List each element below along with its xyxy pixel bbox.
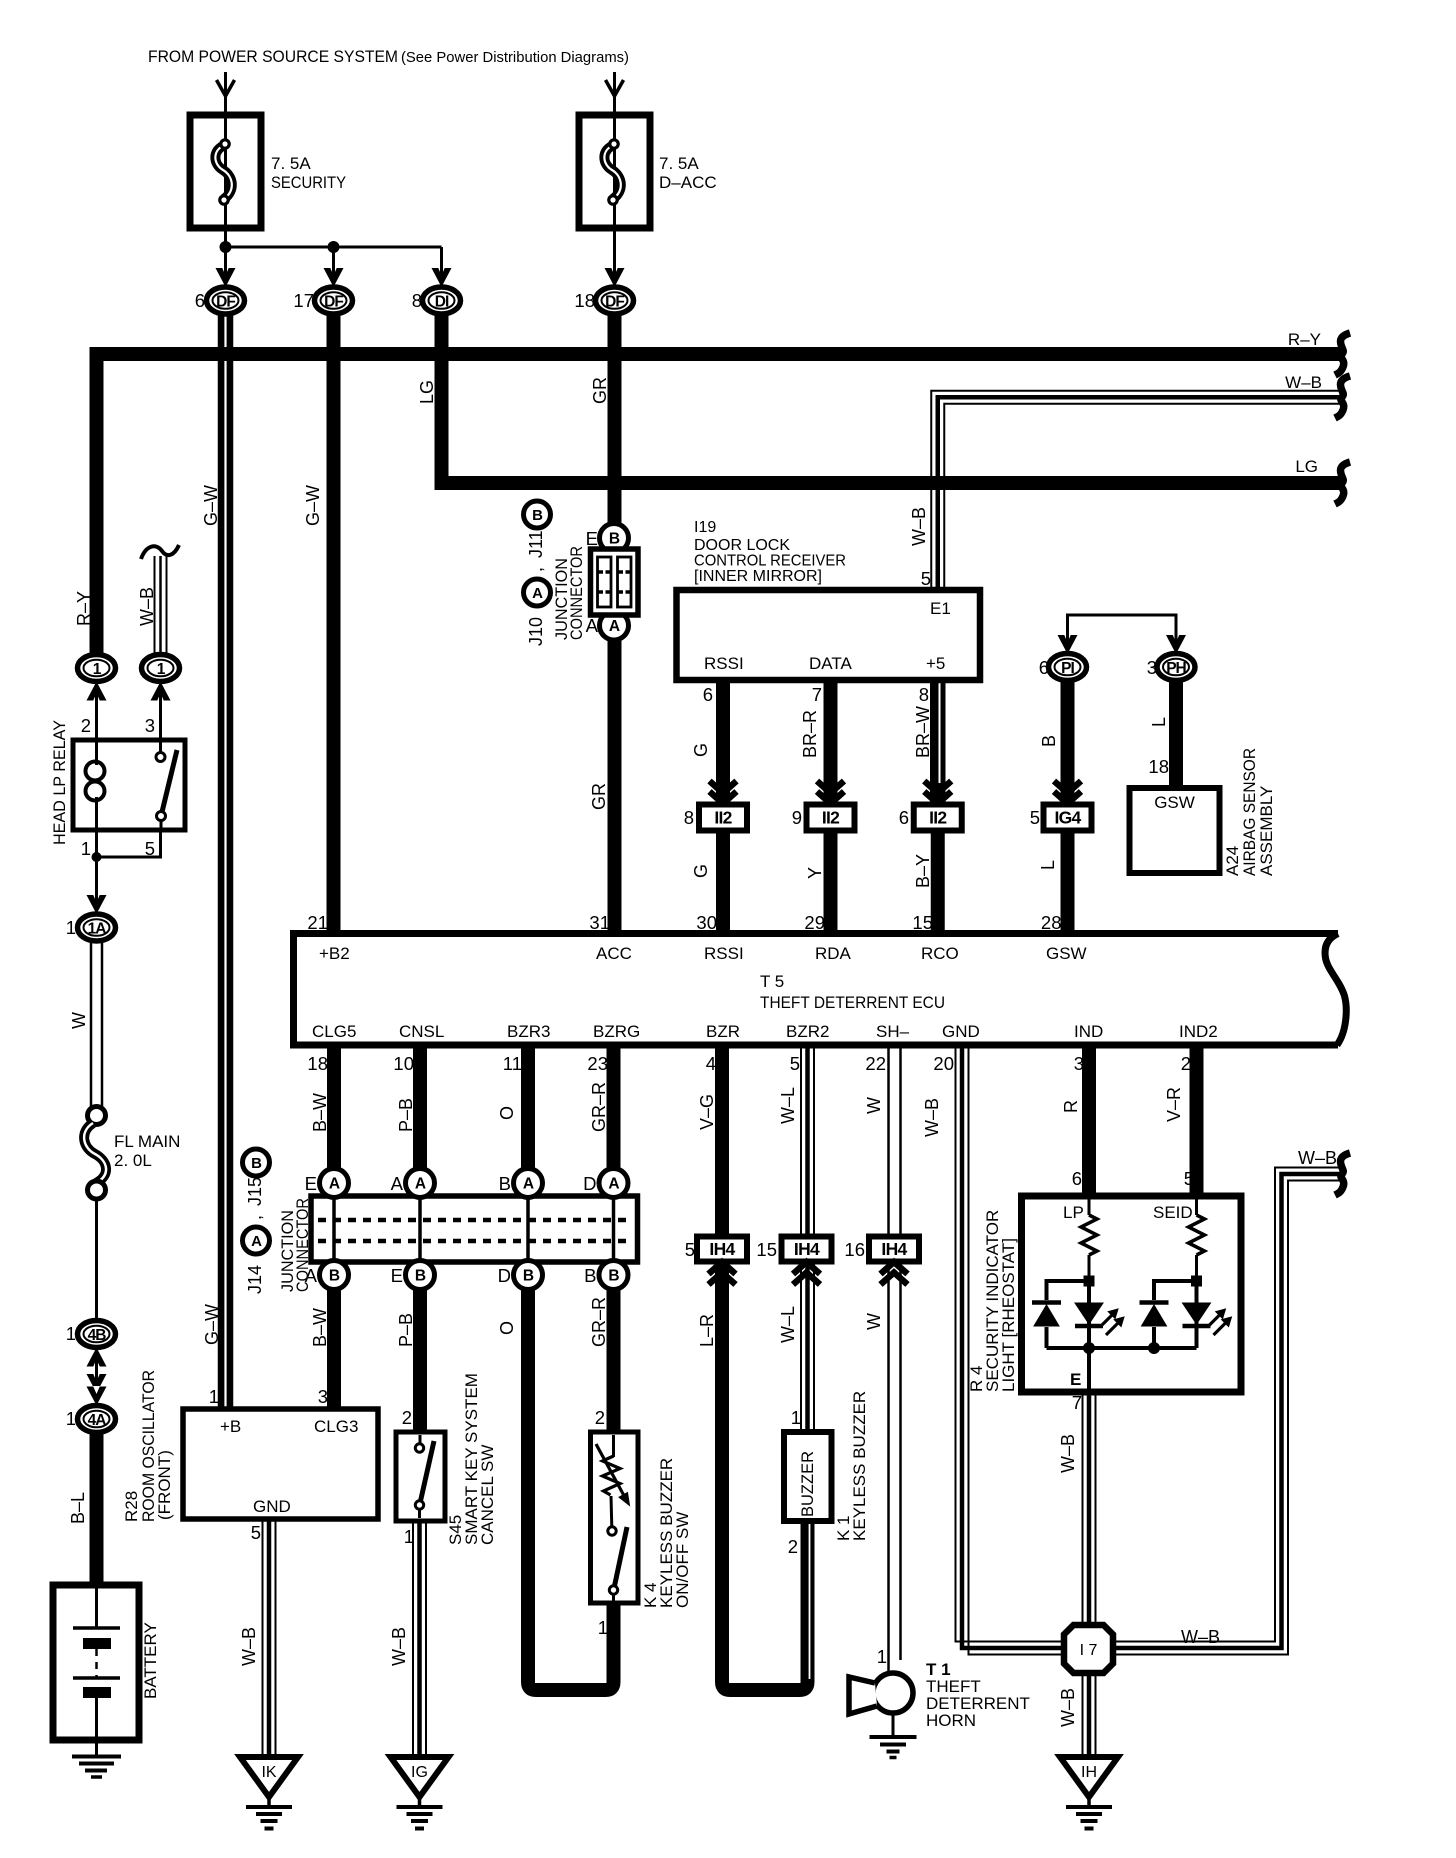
- wire Y from II2 to ECU RDA: [824, 831, 838, 933]
- svg-text:,: ,: [245, 1215, 265, 1220]
- fusible link FL MAIN 2.0L: [88, 1107, 106, 1125]
- svg-text:5: 5: [145, 838, 155, 859]
- svg-text:D: D: [583, 1173, 596, 1194]
- svg-text:E: E: [586, 528, 598, 549]
- svg-text:2: 2: [81, 715, 91, 736]
- connector oval 6 DF: [207, 287, 245, 314]
- wire W-B from S45 pin1 to IG ground (triple): [412, 1521, 414, 1754]
- svg-text:16: 16: [844, 1239, 865, 1260]
- wire B-Y from II2 to ECU RCO: [931, 831, 945, 933]
- wire bracket feeding PI and PH: [1068, 615, 1177, 643]
- svg-text:20: 20: [933, 1053, 954, 1074]
- svg-text:BZR: BZR: [706, 1022, 740, 1041]
- wire B-W from ECU CLG5 through junction to oscillator CLG3: [327, 1045, 341, 1409]
- wire W-B with open end hook at relay: [154, 556, 156, 656]
- svg-text:4B: 4B: [88, 1327, 107, 1344]
- svg-text:G–W: G–W: [303, 485, 323, 526]
- svg-text:21: 21: [307, 912, 328, 933]
- LED pair wiring (LP): [1047, 1281, 1090, 1300]
- svg-text:7. 5A: 7. 5A: [659, 154, 699, 173]
- keyless buzzer on/off switch K4 box: [591, 1432, 639, 1603]
- svg-text:1: 1: [598, 1617, 608, 1638]
- room oscillator R28 box: [183, 1409, 378, 1519]
- svg-text:B: B: [532, 507, 543, 524]
- arrow into II2 pin6: [924, 781, 951, 804]
- svg-text:29: 29: [804, 912, 825, 933]
- svg-text:HEAD LP RELAY: HEAD LP RELAY: [50, 720, 69, 845]
- wire G-W from 6DF down to room oscillator +B (hollow): [218, 313, 234, 1409]
- brace W-B right lower: [1335, 1153, 1350, 1195]
- svg-text:B: B: [608, 1268, 619, 1285]
- svg-text:CLG3: CLG3: [314, 1417, 358, 1436]
- svg-text:7. 5A: 7. 5A: [271, 154, 311, 173]
- svg-text:7: 7: [812, 684, 822, 705]
- junction node at 17DF branch: [328, 241, 340, 253]
- svg-text:GR–R: GR–R: [589, 1297, 609, 1347]
- wire W shielded pair from ECU SH- to IH4: [887, 1045, 890, 1237]
- connector oval 8 DI: [423, 287, 461, 314]
- svg-text:GND: GND: [942, 1022, 980, 1041]
- svg-text:G: G: [691, 864, 711, 878]
- svg-text:A: A: [329, 1176, 340, 1193]
- svg-text:BZR2: BZR2: [786, 1022, 829, 1041]
- svg-text:SECURITY: SECURITY: [271, 173, 346, 192]
- svg-text:1: 1: [209, 1386, 219, 1407]
- svg-text:1: 1: [877, 1646, 887, 1667]
- svg-text:2: 2: [1181, 1053, 1191, 1074]
- wire W-B from oscillator GND to IK ground (triple): [262, 1519, 264, 1754]
- svg-text:I 7: I 7: [1080, 1642, 1098, 1659]
- svg-text:+5: +5: [926, 654, 945, 673]
- SEID resistor: [1195, 1199, 1198, 1215]
- horn ground: [892, 1713, 895, 1736]
- wire L from IG4 to ECU GSW: [1061, 831, 1075, 933]
- junction connector J14/J15 box: [311, 1196, 638, 1262]
- wire W-L from ECU BZR2 to IH4 (triple): [800, 1045, 802, 1237]
- svg-text:IND2: IND2: [1179, 1022, 1218, 1041]
- svg-text:2: 2: [402, 1407, 412, 1428]
- wire B from PI to IG4: [1061, 680, 1075, 804]
- svg-text:SH–: SH–: [876, 1022, 910, 1041]
- svg-text:BR–W: BR–W: [913, 706, 933, 758]
- svg-text:B: B: [329, 1268, 340, 1285]
- wire relay pin3 internal lead: [159, 692, 162, 740]
- connector oval 1A: [78, 914, 116, 941]
- relay switch: [159, 740, 162, 752]
- wire W-B from I7 down to IH ground (triple): [1082, 1673, 1084, 1754]
- arrow into connector 6DF: [216, 268, 236, 287]
- svg-text:A: A: [305, 1265, 318, 1286]
- wire R from ECU IND to security light pin6: [1082, 1045, 1096, 1196]
- svg-text:11: 11: [503, 1053, 522, 1074]
- theft deterrent ECU T5 box: [294, 934, 1339, 1046]
- svg-text:LG: LG: [417, 380, 437, 404]
- svg-text:I19: I19: [694, 519, 716, 536]
- LP resistor: [1088, 1199, 1091, 1215]
- svg-text:R: R: [1061, 1100, 1081, 1113]
- connector box 5 IG4: [1044, 805, 1092, 831]
- svg-text:1A: 1A: [88, 921, 107, 938]
- wire relay pin1 down to junction: [95, 830, 98, 904]
- wire fuse output branch to connectors 6DF/17DF/8DI: [226, 246, 442, 249]
- battery ground: [72, 1755, 121, 1759]
- arrow into II2 pin8: [710, 781, 737, 804]
- diode LP left: [1032, 1300, 1061, 1305]
- wire GR-R from ECU BZRG through junction to K4 pin2: [607, 1045, 621, 1432]
- svg-text:18: 18: [1148, 756, 1169, 777]
- wire V-G / L-R from ECU BZR through IH4, loop to buzzer pin2: [715, 1045, 729, 1237]
- wire relay pin5 down and left to junction: [97, 830, 161, 857]
- svg-text:4A: 4A: [88, 1412, 107, 1429]
- svg-text:GND: GND: [253, 1497, 291, 1516]
- wire R-Y bus from head lamp relay column to right edge: [97, 354, 1343, 656]
- svg-text:CLG5: CLG5: [312, 1022, 356, 1041]
- svg-text:W: W: [864, 1097, 884, 1114]
- svg-text:,: ,: [526, 567, 546, 572]
- wire B-L from 4A to battery: [90, 1432, 104, 1585]
- svg-text:L–R: L–R: [697, 1314, 717, 1347]
- svg-text:SEID: SEID: [1153, 1203, 1193, 1222]
- svg-text:6: 6: [195, 290, 205, 311]
- theft deterrent horn T1: [873, 1673, 913, 1713]
- svg-text:B–W: B–W: [310, 1093, 330, 1132]
- svg-text:LG: LG: [1295, 457, 1318, 476]
- svg-text:5: 5: [790, 1053, 800, 1074]
- svg-text:W–B: W–B: [239, 1627, 259, 1666]
- svg-text:1: 1: [66, 1323, 76, 1344]
- svg-text:5: 5: [921, 568, 931, 589]
- svg-text:BUZZER: BUZZER: [799, 1451, 817, 1517]
- svg-text:5: 5: [1030, 807, 1040, 828]
- svg-text:IG: IG: [411, 1764, 428, 1781]
- svg-text:T 5: T 5: [760, 972, 784, 991]
- svg-text:E1: E1: [930, 599, 951, 618]
- svg-text:3: 3: [318, 1386, 328, 1407]
- airbag sensor assembly A24 box: [1130, 788, 1220, 873]
- K4 rheostat symbol: [612, 1435, 615, 1457]
- svg-text:15: 15: [912, 912, 933, 933]
- svg-text:THEFT DETERRENT ECU: THEFT DETERRENT ECU: [760, 993, 945, 1012]
- svg-text:18: 18: [307, 1053, 328, 1074]
- svg-text:CONTROL RECEIVER: CONTROL RECEIVER: [694, 553, 846, 570]
- wire BR-R from I19 DATA to II2: [824, 680, 838, 804]
- wire from FL MAIN to 4B: [95, 1199, 98, 1320]
- junction connector internal dividers: [332, 1199, 336, 1259]
- svg-text:DATA: DATA: [809, 654, 852, 673]
- wire W-L from IH4 to buzzer pin1 (triple): [800, 1262, 802, 1432]
- white stripe on buzzer pin2 hollow wire: [809, 1523, 811, 1679]
- junction connector J10/J11 ovals and box: [600, 524, 629, 553]
- wire P-B from ECU CNSL through junction to S45: [413, 1045, 427, 1432]
- wire W from 1A to fusible link FL MAIN (hollow): [90, 941, 93, 1108]
- wire BR-W from I19 +5 to II2 (hollow): [930, 680, 946, 804]
- ground triangle IG: [391, 1757, 449, 1797]
- svg-text:E: E: [305, 1173, 317, 1194]
- svg-text:PH: PH: [1166, 660, 1186, 677]
- svg-text:P–B: P–B: [396, 1313, 416, 1347]
- svg-text:6: 6: [703, 684, 713, 705]
- svg-text:5: 5: [685, 1239, 695, 1260]
- svg-text:DF: DF: [605, 294, 624, 311]
- svg-text:O: O: [497, 1321, 517, 1335]
- svg-text:CONNECTOR: CONNECTOR: [567, 546, 586, 640]
- wire W-B from I7 right and up to right edge (triple): [1113, 1168, 1342, 1642]
- battery symbol: [95, 1585, 98, 1628]
- svg-text:GR: GR: [589, 783, 609, 810]
- ground triangle IH: [1060, 1757, 1118, 1797]
- svg-text:10: 10: [393, 1053, 414, 1074]
- svg-text:W–B: W–B: [909, 507, 929, 546]
- svg-text:7: 7: [1072, 1392, 1082, 1413]
- svg-text:W–B: W–B: [1058, 1434, 1078, 1473]
- arrow up into relay connector 1 (W-B): [151, 682, 171, 701]
- LED SEID right with emission arrows: [1183, 1303, 1211, 1324]
- svg-text:A: A: [415, 1176, 426, 1193]
- svg-text:CANCEL SW: CANCEL SW: [478, 1445, 497, 1545]
- svg-text:W–B: W–B: [389, 1627, 409, 1666]
- LED LP right with emission arrows: [1075, 1303, 1103, 1324]
- svg-text:FROM POWER SOURCE SYSTEM: FROM POWER SOURCE SYSTEM: [148, 48, 398, 66]
- svg-text:BZRG: BZRG: [593, 1022, 640, 1041]
- svg-text:O: O: [497, 1106, 517, 1120]
- wire W-B from ECU GND down and right to I7 (triple): [956, 1045, 1065, 1642]
- connector oval 4A: [78, 1406, 116, 1433]
- svg-text:G–W: G–W: [201, 485, 221, 526]
- svg-text:R–Y: R–Y: [74, 591, 94, 626]
- connector box 16 IH4: [869, 1237, 919, 1262]
- brace R-Y right: [1335, 333, 1350, 375]
- wire LG from 8DI to right edge: [442, 313, 1343, 483]
- svg-text:9: 9: [792, 807, 802, 828]
- svg-text:(See Power Distribution Diagra: (See Power Distribution Diagrams): [401, 49, 629, 66]
- wire G from I19 RSSI to II2: [716, 680, 730, 804]
- svg-text:B–W: B–W: [310, 1308, 330, 1347]
- svg-text:B: B: [499, 1173, 511, 1194]
- svg-text:W–L: W–L: [778, 1087, 798, 1124]
- arrow into PH: [1166, 635, 1186, 654]
- arrow into connector 17DF: [324, 268, 344, 287]
- svg-text:[INNER MIRROR]: [INNER MIRROR]: [694, 568, 822, 585]
- LED pair wiring (SEID): [1154, 1281, 1197, 1300]
- svg-text:28: 28: [1041, 912, 1062, 933]
- svg-text:W–B: W–B: [1181, 1627, 1220, 1647]
- connector oval 1 (R-Y): [78, 655, 116, 682]
- relay coil: [95, 740, 98, 765]
- svg-text:IH4: IH4: [881, 1239, 907, 1259]
- svg-text:A: A: [608, 1176, 619, 1193]
- K4 switch symbol: [608, 1527, 616, 1535]
- svg-text:BR–R: BR–R: [800, 710, 820, 758]
- node LP: [1084, 1276, 1095, 1287]
- connector oval 1 (W-B): [142, 655, 180, 682]
- svg-text:17: 17: [293, 290, 314, 311]
- svg-text:E: E: [391, 1265, 403, 1286]
- svg-text:15: 15: [756, 1239, 777, 1260]
- arrow into PI: [1058, 635, 1078, 654]
- svg-text:J15: J15: [245, 1177, 265, 1206]
- wire from power source into fuse D-ACC: [613, 72, 616, 277]
- wire L from PH to airbag sensor GSW pin18: [1169, 680, 1183, 788]
- svg-text:6: 6: [1039, 657, 1049, 678]
- svg-text:L: L: [1149, 717, 1169, 727]
- ground triangle IK: [240, 1757, 298, 1797]
- svg-text:ACC: ACC: [596, 944, 632, 963]
- svg-text:L: L: [1038, 860, 1058, 870]
- svg-text:IND: IND: [1074, 1022, 1103, 1041]
- battery box: [53, 1585, 139, 1740]
- wire from power source into fuse SECURITY: [224, 72, 227, 277]
- svg-text:2. 0L: 2. 0L: [114, 1151, 152, 1170]
- svg-text:LIGHT [RHEOSTAT]: LIGHT [RHEOSTAT]: [999, 1238, 1018, 1392]
- svg-text:W–L: W–L: [778, 1306, 798, 1343]
- svg-text:1: 1: [791, 1407, 801, 1428]
- arrow up into 16 IH4: [881, 1262, 908, 1285]
- svg-text:V–G: V–G: [697, 1094, 717, 1130]
- node E junction: [1083, 1342, 1095, 1354]
- svg-text:ON/OFF SW: ON/OFF SW: [673, 1512, 692, 1608]
- connector I7 octagon: [1064, 1625, 1113, 1673]
- node SEID: [1191, 1276, 1202, 1287]
- connector box 5 IH4: [697, 1237, 747, 1262]
- svg-text:G: G: [691, 743, 711, 757]
- svg-text:CNSL: CNSL: [399, 1022, 444, 1041]
- svg-text:ASSEMBLY: ASSEMBLY: [1257, 786, 1276, 876]
- connector oval 6 PI: [1049, 654, 1087, 681]
- arrow into connector 8DI: [432, 268, 452, 287]
- svg-text:DI: DI: [435, 294, 449, 311]
- svg-text:A: A: [523, 1176, 534, 1193]
- wire E to pin7: [1087, 1348, 1091, 1392]
- connector oval 17 DF: [315, 287, 353, 314]
- svg-text:GR–R: GR–R: [589, 1082, 609, 1132]
- svg-text:RCO: RCO: [921, 944, 959, 963]
- wire V-R from ECU IND2 to security light pin5: [1190, 1045, 1204, 1196]
- svg-text:1: 1: [66, 917, 76, 938]
- door lock control receiver I19 box: [677, 590, 981, 680]
- svg-text:W–B: W–B: [137, 587, 157, 626]
- svg-text:IH4: IH4: [709, 1239, 735, 1259]
- S45 switch symbol: [419, 1435, 422, 1443]
- svg-text:A: A: [609, 618, 620, 635]
- svg-text:HORN: HORN: [926, 1711, 976, 1730]
- junction node below fuse SECURITY: [220, 241, 232, 253]
- svg-text:J10: J10: [526, 617, 546, 646]
- svg-text:W–B: W–B: [1058, 1688, 1078, 1727]
- svg-text:3: 3: [145, 715, 155, 736]
- svg-text:FL MAIN: FL MAIN: [114, 1132, 180, 1151]
- connector box 8 II2: [699, 805, 747, 831]
- svg-text:D: D: [498, 1265, 511, 1286]
- arrow up below 4B: [87, 1348, 107, 1367]
- wire between 4B and 4A: [95, 1348, 98, 1396]
- svg-text:D–ACC: D–ACC: [659, 173, 717, 192]
- svg-text:RSSI: RSSI: [704, 654, 744, 673]
- svg-text:+B2: +B2: [319, 944, 350, 963]
- arrow up into 5 IH4: [709, 1262, 736, 1285]
- svg-text:2: 2: [788, 1536, 798, 1557]
- svg-text:B: B: [415, 1268, 426, 1285]
- svg-text:22: 22: [865, 1053, 886, 1074]
- svg-text:PI: PI: [1061, 660, 1074, 677]
- svg-text:W–B: W–B: [922, 1098, 942, 1137]
- svg-text:3: 3: [1074, 1053, 1084, 1074]
- svg-text:LP: LP: [1063, 1203, 1084, 1222]
- svg-text:IG4: IG4: [1054, 808, 1081, 828]
- svg-text:A: A: [251, 1233, 262, 1250]
- svg-text:RDA: RDA: [815, 944, 852, 963]
- connector oval 3 PH: [1157, 654, 1195, 681]
- svg-text:W: W: [864, 1313, 884, 1330]
- arrow up into relay connector 1 (R-Y): [87, 682, 107, 701]
- svg-text:A: A: [586, 615, 599, 636]
- svg-text:Y: Y: [805, 867, 825, 879]
- svg-text:R–Y: R–Y: [1288, 330, 1321, 349]
- wire O from ECU BZR3 through junction, loop to K4 pin1: [528, 1045, 614, 1690]
- connector oval 4B: [78, 1321, 116, 1348]
- svg-text:E: E: [1070, 1370, 1081, 1389]
- svg-text:V–R: V–R: [1164, 1087, 1184, 1122]
- head lamp relay box: [73, 740, 185, 830]
- svg-text:GSW: GSW: [1154, 793, 1195, 812]
- svg-text:RSSI: RSSI: [704, 944, 744, 963]
- svg-text:A: A: [391, 1173, 404, 1194]
- svg-text:GSW: GSW: [1046, 944, 1087, 963]
- svg-text:J14: J14: [245, 1265, 265, 1294]
- svg-text:II2: II2: [929, 808, 947, 828]
- svg-text:6: 6: [1072, 1168, 1082, 1189]
- junction connector dashed rows: [318, 1218, 630, 1223]
- wire W-B from security light E pin7 to I7 (triple): [1082, 1392, 1084, 1625]
- diode SEID left: [1140, 1300, 1169, 1305]
- fuse 7.5A SECURITY: [190, 115, 261, 228]
- svg-text:GR: GR: [590, 377, 610, 404]
- wire G-W from 17DF down to ECU +B2: [327, 313, 341, 933]
- keyless buzzer K1 box: [784, 1432, 832, 1521]
- svg-text:DOOR LOCK: DOOR LOCK: [694, 537, 790, 554]
- connector box 6 II2: [914, 805, 962, 831]
- svg-text:BZR3: BZR3: [507, 1022, 550, 1041]
- svg-text:4: 4: [706, 1053, 716, 1074]
- double arrow down into 4A: [87, 1374, 107, 1393]
- junction connector bottom pin circles: [320, 1261, 349, 1290]
- wire W-B from door lock receiver pin5 up and to right edge (triple): [931, 391, 1342, 590]
- svg-text:31: 31: [589, 912, 610, 933]
- arrow into IG4: [1054, 781, 1081, 804]
- svg-text:B–Y: B–Y: [913, 854, 933, 888]
- svg-text:II2: II2: [822, 808, 840, 828]
- svg-text:W: W: [69, 1012, 89, 1029]
- junction connector top pin circles: [320, 1169, 349, 1198]
- wire GR from 18DF down to ECU ACC: [608, 313, 622, 933]
- junction node below relay: [92, 852, 102, 862]
- svg-text:18: 18: [574, 290, 595, 311]
- brace W-B right top: [1335, 376, 1350, 418]
- svg-text:B: B: [584, 1265, 596, 1286]
- svg-text:B–L: B–L: [68, 1492, 88, 1524]
- security indicator light R4 box: [1022, 1196, 1242, 1392]
- svg-text:+B: +B: [220, 1417, 241, 1436]
- svg-text:3: 3: [1147, 657, 1157, 678]
- smart key system cancel switch S45 box: [396, 1432, 445, 1521]
- arrow into connector 18DF: [605, 268, 625, 287]
- arrow down into 1A: [87, 895, 107, 914]
- svg-text:8: 8: [412, 290, 422, 311]
- svg-text:IK: IK: [261, 1764, 276, 1781]
- arrow up into 15 IH4: [793, 1262, 820, 1285]
- svg-text:W–B: W–B: [1298, 1148, 1337, 1168]
- svg-text:IH: IH: [1081, 1764, 1097, 1781]
- fuse 7.5A D-ACC: [579, 115, 650, 228]
